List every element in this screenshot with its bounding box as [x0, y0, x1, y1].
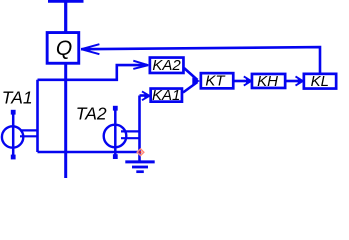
- wire TA1 secondary vertical: [36, 80, 39, 152]
- wire Q down (primary circuit): [64, 63, 67, 179]
- wire KA2 to KT diagonal: [184, 68, 198, 80]
- svg-text:KA1: KA1: [152, 87, 180, 104]
- breaker Q: [47, 33, 79, 64]
- svg-text:KH: KH: [257, 73, 278, 90]
- arrow into KH: [244, 76, 251, 85]
- wire TA1 to KA2: [38, 65, 148, 80]
- svg-text:KL: KL: [311, 73, 329, 90]
- bus bar: [48, 0, 84, 3]
- svg-text:TA1: TA1: [2, 88, 33, 108]
- arrow into KA1: [142, 91, 150, 100]
- wire KL to Q (trip feedback): [81, 47, 320, 73]
- wire KT to KH: [234, 80, 249, 83]
- svg-text:KT: KT: [205, 72, 226, 89]
- arrow into KA2: [133, 61, 148, 69]
- relay KL: [304, 73, 336, 90]
- timer KT: [201, 72, 233, 89]
- ground: [125, 162, 154, 172]
- wire TA2 to KA1: [140, 94, 148, 97]
- arrow into KT: [192, 77, 200, 84]
- arrow into Q: [81, 44, 99, 54]
- wire KA1 to KT diagonal: [183, 82, 198, 93]
- wire bottom common: [38, 151, 140, 154]
- svg-text:TA2: TA2: [76, 104, 107, 124]
- svg-text:Q: Q: [56, 37, 72, 60]
- indicator KH: [252, 73, 285, 90]
- wire KH to KL: [286, 80, 301, 83]
- svg-text:KA2: KA2: [152, 57, 181, 74]
- current transformer TA2: [104, 106, 140, 159]
- wire bus to Q: [64, 0, 67, 33]
- arrow into KL: [296, 76, 303, 85]
- wire TA2 secondary vertical to ground: [138, 96, 141, 161]
- node marker (junction at ground): [137, 149, 144, 156]
- relay KA2: [150, 57, 184, 74]
- relay KA1: [151, 87, 182, 104]
- current transformer TA1: [2, 110, 38, 160]
